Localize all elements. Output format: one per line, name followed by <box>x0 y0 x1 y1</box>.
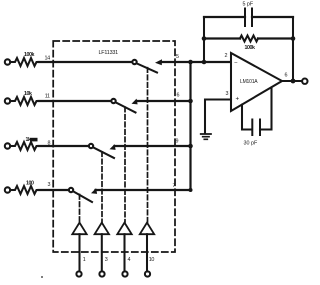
feedback resistor R5 <box>240 36 258 42</box>
switch driver A4 <box>72 223 86 235</box>
junction feedback-summing <box>202 60 207 65</box>
feedback left vertical wire <box>203 17 205 62</box>
wire J3 to R3 <box>10 145 13 147</box>
bus wire to summing node <box>189 62 191 190</box>
switch S1 pole <box>132 60 136 64</box>
svg-text:100: 100 <box>26 181 34 187</box>
summing wire S1 to op-amp <box>161 61 231 63</box>
control line S4 <box>79 195 81 223</box>
svg-text:3: 3 <box>105 257 108 263</box>
lead A2 to terminal <box>123 234 125 271</box>
svg-text:6: 6 <box>177 93 180 99</box>
svg-text:11: 11 <box>45 94 50 100</box>
wire R2 to switch S2 <box>39 100 112 102</box>
input terminal J4 <box>5 187 10 192</box>
input terminal J3 <box>5 143 10 148</box>
compensation network right lead <box>260 88 272 130</box>
lead A3 to terminal <box>101 234 103 271</box>
wire R3 to switch S3 <box>39 145 89 147</box>
svg-text:10k: 10k <box>24 91 32 97</box>
junction R5-right <box>291 36 296 41</box>
svg-text:−: − <box>234 61 238 67</box>
junction bus row4 <box>189 188 193 192</box>
input terminal J2 <box>5 98 10 103</box>
svg-text:100k: 100k <box>245 45 255 51</box>
svg-text:+: + <box>236 96 240 103</box>
svg-text:100k: 100k <box>24 52 34 58</box>
bottom terminal pin 1 <box>76 271 81 276</box>
wire J2 to R2 <box>10 100 13 102</box>
svg-text:14: 14 <box>45 56 51 62</box>
svg-text:30 pF: 30 pF <box>244 141 258 147</box>
control line S3 <box>101 152 103 222</box>
output terminal <box>302 79 307 84</box>
svg-text:4: 4 <box>128 257 131 263</box>
bottom terminal pin 4 <box>122 271 127 276</box>
lead A4 to terminal <box>78 234 80 271</box>
junction output node <box>291 79 296 84</box>
wire R1 to switch S1 <box>39 61 133 63</box>
bottom terminal pin 3 <box>99 271 104 276</box>
resistor R3 <box>13 142 39 150</box>
svg-text:9: 9 <box>176 139 179 145</box>
input terminal J1 <box>5 59 10 64</box>
compensation capacitor C2 plates <box>252 120 260 136</box>
svg-text:LF11331: LF11331 <box>99 50 119 56</box>
switch driver A1 <box>140 223 154 235</box>
feedback resistor R5 left wire <box>204 37 240 39</box>
bottom terminal pin 10 <box>145 271 150 276</box>
switch S4 arrowhead <box>91 188 97 194</box>
capacitor C1 left wire <box>204 16 245 18</box>
wire S2 to bus <box>137 100 191 102</box>
compensation network left lead <box>242 105 251 130</box>
op-amp U2 LM101A <box>231 53 282 111</box>
non-inverting input wire <box>205 100 231 134</box>
capacitor C1 right wire <box>252 16 293 18</box>
resistor R1 <box>13 58 39 66</box>
svg-text:1: 1 <box>83 257 86 263</box>
svg-text:3: 3 <box>48 182 51 188</box>
wire J4 to R4 <box>10 189 13 191</box>
output wire <box>282 80 302 82</box>
switch driver A2 <box>117 223 131 235</box>
wire S3 to bus <box>115 145 191 147</box>
switch S2 arm <box>116 103 136 113</box>
lead A1 to terminal <box>146 234 148 271</box>
switch S3 arrowhead <box>110 144 116 150</box>
feedback resistor R5 right wire <box>258 37 293 39</box>
ground <box>201 134 211 139</box>
label R3 smear <box>30 138 38 142</box>
wire S4 to bus corner <box>96 189 191 191</box>
wire J1 to R1 <box>10 61 13 63</box>
junction feedback-R5 <box>202 36 207 41</box>
svg-text:5: 5 <box>176 54 179 60</box>
junction bus-summing <box>188 60 193 65</box>
svg-text:2: 2 <box>225 53 228 59</box>
switch S1 arrowhead <box>155 59 162 65</box>
wire R4 to switch S4 <box>39 189 69 191</box>
resistor R4 <box>13 186 39 194</box>
feedback right vertical wire <box>292 17 294 81</box>
svg-text:LM101A: LM101A <box>240 79 258 85</box>
switch driver A3 <box>95 223 109 235</box>
switch S4 pole <box>69 188 73 192</box>
junction bus row3 <box>188 144 193 149</box>
control line S2 <box>124 107 126 222</box>
switch S3 arm <box>94 148 115 159</box>
switch S1 arm <box>137 64 157 73</box>
switch S3 pole <box>89 144 93 148</box>
svg-text:6: 6 <box>285 73 288 79</box>
noise speck <box>41 276 43 278</box>
svg-text:7: 7 <box>173 183 176 189</box>
resistor R2 <box>13 97 39 105</box>
capacitor C1 plates <box>245 9 252 27</box>
switch S4 arm <box>74 192 93 203</box>
control line S1 <box>147 68 149 222</box>
switch S2 pole <box>111 99 115 103</box>
junction bus row2 <box>188 99 193 104</box>
svg-text:5 pF: 5 pF <box>243 1 254 7</box>
svg-text:3: 3 <box>226 91 229 97</box>
IC outline LF11331 dashed box <box>53 41 175 252</box>
switch S2 arrowhead <box>132 99 138 105</box>
svg-text:10: 10 <box>149 257 155 263</box>
